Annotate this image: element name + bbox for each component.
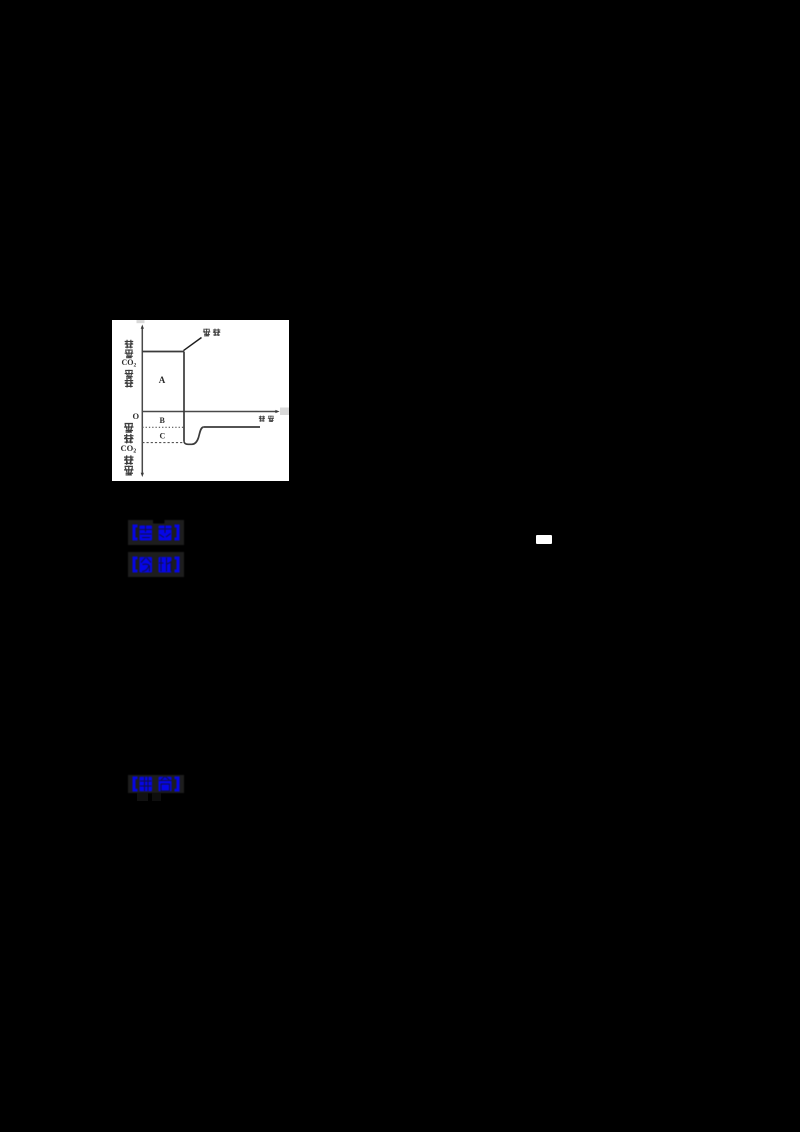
svg-text:B: B xyxy=(159,416,165,425)
svg-text:C: C xyxy=(159,431,165,440)
svg-text:O: O xyxy=(132,411,139,421)
svg-text:A: A xyxy=(158,375,165,385)
